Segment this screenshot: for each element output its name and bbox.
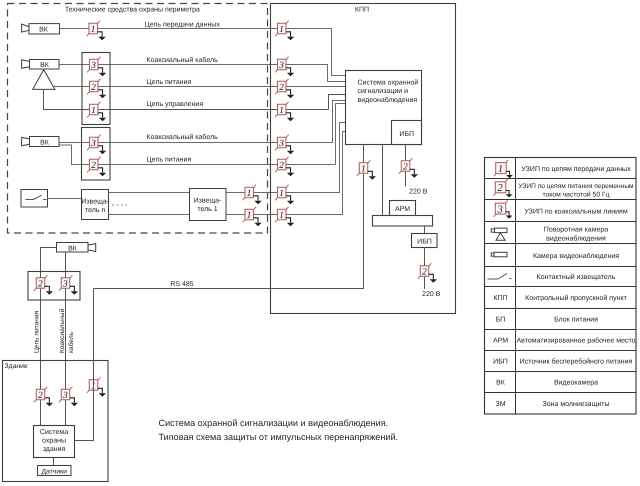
svg-text:1: 1 [498, 164, 503, 175]
svg-text:Система охранной: Система охранной [358, 79, 419, 87]
svg-text:Коаксиальный кабель: Коаксиальный кабель [147, 133, 219, 141]
video camera VK2 body [30, 60, 60, 70]
svg-text:сигнализации и: сигнализации и [358, 88, 409, 95]
legend table frame [485, 158, 637, 415]
SPD U1 in building (RS485) [87, 377, 106, 397]
svg-text:Коаксиальный кабель: Коаксиальный кабель [147, 56, 219, 64]
svg-text:Видеокамера: Видеокамера [554, 380, 598, 387]
svg-text:Зона молниезащиты: Зона молниезащиты [543, 401, 610, 408]
security and video surveillance system unit [346, 71, 422, 145]
SPD U2 in building (power) [34, 387, 53, 407]
svg-text:Контактный извещатель: Контактный извещатель [537, 273, 616, 281]
svg-text:здания: здания [43, 446, 66, 453]
perimeter lightning-protection zone dashed boundary [8, 4, 268, 234]
svg-text:Цепь питания: Цепь питания [147, 79, 192, 86]
wire: contact to detector n [48, 198, 83, 200]
svg-text:220 В: 220 В [422, 291, 441, 298]
SPD U2 on power row6 [87, 157, 106, 177]
svg-text:Источник бесперебойного питани: Источник бесперебойного питания [520, 358, 633, 366]
svg-text:Цепь питания: Цепь питания [34, 310, 41, 353]
svg-text:охраны: охраны [42, 437, 66, 444]
svg-text:УЗИП по коаксиальным линиям: УЗИП по коаксиальным линиям [524, 208, 627, 215]
svg-text:ЗМ: ЗМ [495, 401, 505, 408]
SPD cabinet box (camera 2) [82, 53, 110, 125]
legend SPD1 symbol [494, 160, 513, 178]
SPD U1 row7 (KPP) [275, 185, 294, 205]
legend contact detector icon [488, 274, 512, 279]
contact detector box [21, 190, 48, 208]
svg-text:видеонаблюдения: видеонаблюдения [358, 96, 418, 104]
wire: hub to UPS2 [424, 226, 426, 234]
wire: VK4 coax drop [65, 252, 67, 426]
workstation ARM box [390, 201, 416, 217]
svg-text:АРМ: АРМ [395, 206, 410, 213]
SPD U1 on RS485 riser [357, 160, 376, 180]
SPD U1 on control row4 [87, 102, 106, 122]
SPD U1 on data line (perimeter) [87, 21, 106, 41]
legend pan-tilt camera icon [491, 228, 507, 240]
SPD U3 on VK4 coax [59, 275, 78, 295]
video camera VK1 lens [22, 24, 29, 32]
svg-text:ВК: ВК [40, 139, 50, 146]
wire: coax cable row5 [59, 101, 346, 143]
svg-text:Технические средства охраны пе: Технические средства охраны периметра [65, 7, 200, 14]
svg-text:Цепь управления: Цепь управления [147, 101, 204, 108]
video camera VK3 body [30, 137, 60, 147]
svg-text:тель n: тель n [85, 207, 105, 214]
wire: VK4 power drop [41, 248, 57, 426]
svg-text:Система: Система [40, 429, 68, 436]
svg-text:Датчики: Датчики [41, 468, 67, 475]
SPD cabinet box (camera 3) [82, 128, 111, 181]
video camera VK4 lens [88, 244, 96, 252]
svg-text:кабель: кабель [68, 331, 75, 353]
svg-text:Типовая схема защиты от импуль: Типовая схема защиты от импульсных перен… [159, 432, 399, 442]
building (Zdanie) box [3, 361, 109, 482]
wire: RS485 into building system [75, 289, 94, 441]
svg-text:Автоматизированное рабочее мес: Автоматизированное рабочее место [517, 337, 636, 345]
svg-text:RS 485: RS 485 [170, 281, 193, 288]
building security system box [34, 426, 75, 458]
SPD U2 on UPS1 mains [399, 158, 418, 178]
svg-text:УЗИП по цепям питания переменн: УЗИП по цепям питания переменным [518, 183, 634, 190]
pan-tilt drive (triangle) under VK2 [33, 70, 55, 90]
detector 1 box [190, 189, 227, 221]
SPD U3 on coax row2 [87, 57, 106, 76]
svg-text:Извеща-: Извеща- [194, 198, 222, 205]
video camera VK4 body [57, 243, 89, 253]
SPD U1 on detector loop row8 (perimeter side) [243, 207, 262, 227]
wire: detector loop row7 [109, 123, 347, 193]
svg-text:КПП: КПП [493, 295, 507, 302]
svg-text:ИБП: ИБП [493, 359, 508, 366]
detector n box [82, 190, 109, 220]
SPD U3 row2 (KPP) [275, 57, 294, 76]
UPS unit 1 box [392, 121, 422, 145]
svg-text:ИБП: ИБП [417, 238, 432, 245]
wire: data circuit row1 [60, 29, 347, 76]
wire: coax cable row2 [59, 65, 346, 82]
svg-text:Контрольный пропускной пункт: Контрольный пропускной пункт [525, 294, 627, 302]
svg-text:видеонаблюдения: видеонаблюдения [546, 234, 606, 242]
svg-text:током частотой 50 Гц: током частотой 50 Гц [542, 191, 609, 199]
svg-text:Блок питания: Блок питания [554, 317, 598, 324]
wire: power circuit row6 [59, 104, 346, 165]
SPD U2 on power row3 [87, 79, 106, 99]
svg-text:КПП: КПП [355, 7, 369, 14]
wire: power circuit row3 [53, 86, 347, 88]
svg-text:УЗИП по цепям передачи данных: УЗИП по цепям передачи данных [521, 166, 631, 173]
legend SPD2 symbol [494, 179, 513, 197]
svg-text:2: 2 [497, 183, 503, 194]
video camera VK2 lens [22, 60, 30, 68]
wire: UPS1 mains drop [405, 145, 407, 187]
SPD U3 row5 (KPP) [275, 135, 294, 155]
svg-text:ИБП: ИБП [399, 131, 414, 138]
SPD U2 on UPS2 mains [418, 263, 437, 283]
svg-text:Коаксиальный: Коаксиальный [59, 309, 66, 353]
SPD U2 row3 (KPP) [275, 79, 294, 99]
svg-text:тель 1: тель 1 [197, 206, 217, 213]
svg-text:Извеща-: Извеща- [81, 199, 109, 206]
svg-text:3: 3 [496, 204, 502, 215]
SPD U2 row6 (KPP) [275, 157, 294, 177]
legend fixed camera icon [491, 252, 507, 256]
wire: UPS2 mains drop [424, 248, 426, 290]
contact detector symbol [26, 195, 47, 199]
svg-text:ВК: ВК [40, 62, 50, 69]
svg-text:Поворотная камера: Поворотная камера [544, 227, 608, 234]
SPD U2 on VK4 power [34, 275, 53, 295]
svg-text:Здание: Здание [5, 363, 28, 370]
wire: system to sensors [53, 458, 55, 466]
legend column divider [515, 158, 517, 415]
UPS unit 2 box [412, 234, 438, 248]
video camera VK1 body [29, 24, 60, 34]
svg-text:Система охранной сигнализации: Система охранной сигнализации и видеонаб… [159, 418, 389, 428]
svg-text:ВК: ВК [496, 380, 506, 387]
SPD U3 on coax row5 [87, 135, 106, 155]
wire: detector loop row8 [109, 132, 347, 215]
SPD U1 row8 (KPP) [275, 207, 294, 227]
SPD U3 in building (coax) [59, 387, 78, 407]
svg-text:ВК: ВК [68, 245, 78, 252]
svg-text:Цепь передачи данных: Цепь передачи данных [145, 21, 221, 28]
wire: RS485 riser from system unit [94, 145, 364, 289]
video camera VK3 lens [22, 137, 30, 145]
svg-text:220 В: 220 В [409, 188, 428, 195]
SPD U1 on detector loop row7 (perimeter side) [243, 185, 262, 205]
legend row lines [485, 179, 637, 393]
legend SPD3 symbol [494, 200, 513, 218]
sensors box [38, 466, 72, 476]
svg-text:Камера видеонаблюдения: Камера видеонаблюдения [533, 252, 619, 260]
svg-text:АРМ: АРМ [493, 338, 508, 345]
wire: control circuit row4 [44, 89, 347, 109]
checkpoint KPP box [271, 4, 456, 314]
SPD cabinet (camera 4) [28, 272, 80, 301]
svg-text:Цепь питания: Цепь питания [147, 157, 192, 164]
continuation dots [112, 204, 127, 206]
workstation hub (desk) box [373, 216, 433, 227]
svg-text:БП: БП [496, 317, 506, 324]
SPD U1 row4 (KPP) [275, 102, 294, 122]
svg-text:ВК: ВК [39, 26, 49, 33]
wire: system unit to workstation hub [382, 145, 384, 217]
SPD U1 row1 (KPP) [275, 21, 294, 41]
